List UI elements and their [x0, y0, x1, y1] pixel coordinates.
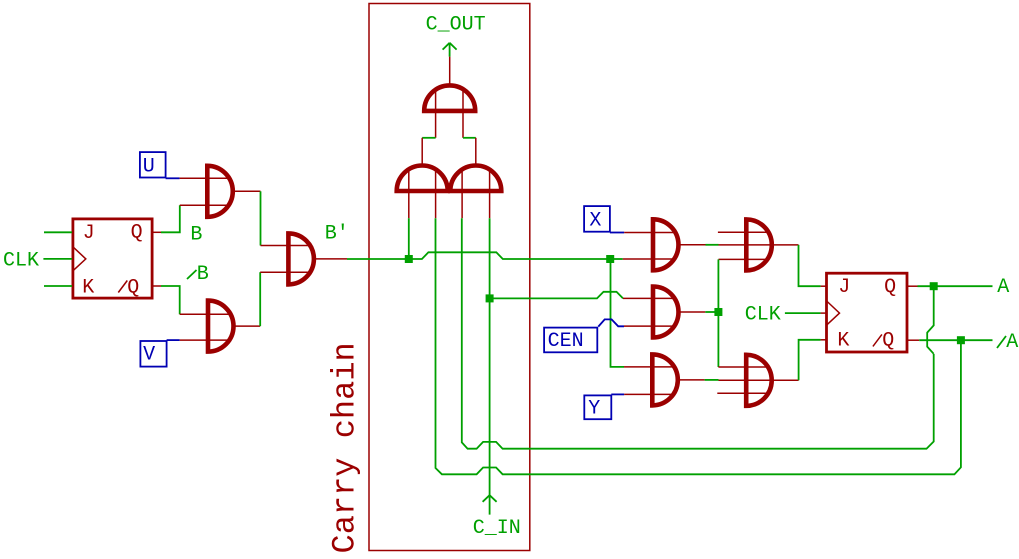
- svg-text:A: A: [1006, 331, 1018, 354]
- wire /Q to gate V input (net /B): [161, 286, 180, 314]
- svg-text:U: U: [143, 156, 155, 179]
- svg-text:Carry chain: Carry chain: [327, 342, 364, 553]
- pin: Y-gate upper input: [624, 366, 675, 368]
- port box U: [140, 152, 166, 177]
- svg-text:K: K: [82, 276, 94, 299]
- junction Q/A feedback: [930, 282, 938, 290]
- wire vertical from B' junction up to lower-left gate: [408, 218, 410, 259]
- svg-text:K: K: [837, 330, 849, 353]
- junction at B' / first carry input: [405, 255, 413, 263]
- junction /Q//A feedback: [957, 336, 965, 344]
- wire A2-out down to FF J: [799, 245, 821, 286]
- wire CLK to right FF clock: [785, 312, 821, 314]
- wire CEN-out to junction: [705, 311, 718, 313]
- wire CEN to gate (hop over X column): [598, 319, 624, 326]
- pin: top gate output: [449, 57, 451, 86]
- wire V to gate: [167, 339, 180, 341]
- pin: A2 top stub (unconnected): [718, 231, 769, 233]
- pin: right FF Q output: [908, 285, 918, 287]
- wire vertical /A feedback column: [436, 218, 961, 474]
- pin label /Q (right FF): [873, 334, 882, 346]
- wire X-out to A2: [706, 244, 719, 246]
- wire V-out up to B' gate: [259, 272, 261, 326]
- junction CEN-out column: [714, 308, 722, 316]
- wire U to gate: [166, 177, 180, 179]
- pin: CEN-gate upper input: [623, 297, 676, 299]
- pin: right FF clock: [821, 312, 826, 314]
- arrow C_IN: [483, 495, 497, 502]
- pin: U-gate upper input: [180, 177, 230, 179]
- pin: right FF J input: [821, 285, 826, 287]
- pin: B'-gate upper input: [261, 245, 312, 247]
- svg-text:Q: Q: [882, 330, 894, 353]
- wire vertical X-junction down to Y-gate: [611, 259, 625, 367]
- AND gate U (top-left): [207, 166, 232, 217]
- pin: CEN-gate output: [678, 311, 705, 313]
- svg-text:Y: Y: [588, 398, 600, 421]
- wire Q to gate U input (net B): [161, 205, 180, 232]
- clock triangle left FF: [73, 246, 86, 271]
- wire jog left lower gate out to top gate in: [422, 137, 435, 139]
- carry chain box: [369, 4, 530, 551]
- svg-text:CLK: CLK: [745, 304, 781, 327]
- AND gate X row: [653, 219, 678, 270]
- AND gate CEN row: [653, 287, 679, 338]
- port box Y: [584, 395, 611, 419]
- AND gate A3 (bottom-right): [746, 355, 772, 406]
- pin: X-gate lower input: [623, 258, 675, 260]
- flip-flop right JK: [827, 273, 908, 352]
- svg-text:CLK: CLK: [3, 250, 39, 273]
- flip-flop U? (left JK): [73, 219, 152, 298]
- label /A: [997, 336, 1006, 348]
- pin: A2 bottom input: [719, 258, 769, 260]
- carry AND gate top (up-pointing): [424, 85, 475, 110]
- wire carry to CEN-gate upper input (hop over X column): [490, 292, 623, 299]
- AND gate A2 (top-right): [746, 219, 772, 270]
- pin: A3 top input: [718, 366, 768, 368]
- carry AND gate left (up-pointing): [397, 166, 448, 192]
- pin: V-gate output: [234, 325, 261, 327]
- pin Q stub left FF: [154, 231, 162, 233]
- svg-text:A: A: [997, 276, 1009, 299]
- wire K stub left FF: [44, 285, 72, 287]
- pin: A2 middle input + output through-line: [719, 244, 799, 246]
- pin label /Q (left FF): [118, 281, 127, 293]
- wire jog right lower gate out to top gate in: [463, 137, 476, 139]
- pin: V-gate upper input: [180, 313, 230, 315]
- svg-text:B': B': [325, 223, 349, 246]
- svg-text:Q: Q: [131, 222, 143, 245]
- wire Y to gate: [611, 393, 624, 395]
- wire Q to A with junction: [918, 285, 993, 287]
- svg-text:C_IN: C_IN: [473, 517, 521, 540]
- wire Y-out to A3: [705, 379, 719, 381]
- pin: lower-right gate output: [475, 138, 477, 166]
- pin /Q stub left FF: [154, 285, 162, 287]
- pin: B'-gate lower input: [260, 271, 311, 273]
- pin: right FF K input: [821, 339, 826, 341]
- port box X: [584, 206, 610, 232]
- carry AND gate right (up-pointing): [450, 166, 501, 192]
- pin: Y-gate output: [678, 379, 705, 381]
- port box CEN: [544, 328, 597, 353]
- pin: CEN-gate lower input: [624, 325, 675, 327]
- pin: lower-left gate input A (through base): [408, 170, 410, 219]
- clock triangle right FF: [826, 301, 839, 326]
- pin: lower-left gate output: [421, 138, 423, 166]
- wire U-out down to B' gate: [260, 191, 262, 245]
- pin: X-gate output: [678, 244, 705, 246]
- pin: lower-left gate input B (through base): [435, 170, 437, 219]
- pin: right FF /Q output: [908, 339, 920, 341]
- AND gate Y row: [652, 354, 678, 405]
- svg-text:B: B: [197, 263, 209, 286]
- label /B: [187, 270, 197, 279]
- wire CLK to left FF clock: [43, 258, 72, 260]
- wire X to gate: [610, 232, 624, 234]
- pin: U-gate output: [233, 190, 261, 192]
- svg-text:J: J: [838, 276, 850, 299]
- wire J stub left FF: [44, 231, 72, 233]
- pin: Y-gate lower input: [624, 393, 674, 395]
- pin: lower-right gate input A (through base): [461, 170, 463, 219]
- wire junction to X-gate lower input: [610, 258, 623, 260]
- AND gate V (bottom-left): [208, 301, 234, 352]
- svg-text:Q: Q: [884, 276, 896, 299]
- svg-text:V: V: [143, 344, 155, 367]
- wire C_OUT with arrow: [449, 43, 451, 57]
- pin: V-gate lower input: [180, 339, 230, 341]
- pin: A3 bottom stub (unconnected): [717, 392, 768, 394]
- junction at B' / X-gate column: [606, 255, 614, 263]
- AND gate B': [288, 233, 314, 284]
- junction C_IN / carry wire: [486, 294, 494, 302]
- wire A3-out up to FF K: [799, 340, 821, 381]
- pin: lower-right gate input B (through base): [489, 170, 491, 218]
- wire C_IN column with junction to CEN-gate wire: [489, 218, 491, 514]
- svg-text:X: X: [589, 209, 601, 232]
- wire net B' with hop over three verticals: [347, 252, 610, 259]
- pin: top gate right input (through base): [462, 90, 464, 138]
- wire vertical junction column to A2/A3: [717, 259, 719, 367]
- svg-text:C_OUT: C_OUT: [426, 13, 486, 36]
- pin: top gate left input (through base): [435, 89, 437, 138]
- wire vertical A feedback column: [462, 218, 934, 449]
- pin: B'-gate output: [314, 258, 347, 260]
- svg-text:B: B: [190, 223, 202, 246]
- pin: U-gate lower input: [180, 204, 229, 206]
- arrow C_OUT: [443, 43, 457, 50]
- pin: X-gate upper input: [624, 232, 675, 234]
- wire /Q to /A: [919, 339, 992, 341]
- port box V: [140, 341, 166, 367]
- svg-text:J: J: [83, 222, 95, 245]
- svg-text:Q: Q: [127, 277, 139, 300]
- wire A feedback jog across /Q wire: [927, 286, 934, 354]
- pin: A3 middle input + output through-line: [719, 379, 799, 381]
- svg-text:CEN: CEN: [548, 330, 584, 353]
